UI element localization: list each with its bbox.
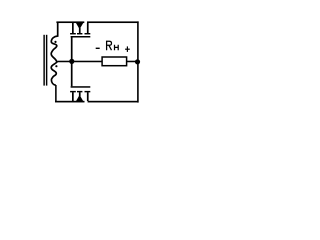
wire: winding bottom lead down to bottom bus — [55, 85, 57, 102]
rectifier element V1 (top): left electrode stem — [72, 23, 74, 33]
rectifier element V1: left electrode foot — [70, 33, 76, 34]
node: plus junction dot — [135, 59, 140, 64]
winding polarity dot upper — [54, 41, 56, 43]
rectifier element V2: right electrode cap — [85, 91, 91, 92]
rectifier element V1: right electrode stem — [87, 23, 89, 33]
wire: V2 plate lead up from long bar to center-tap node — [71, 61, 73, 86]
rectifier element V1: middle stem below triangle — [79, 28, 81, 33]
rectifier element V1: right electrode foot — [85, 33, 91, 34]
wire: resistor right lead — [127, 61, 139, 63]
winding polarity dot lower — [55, 65, 57, 67]
resistor Rn (load) body — [102, 57, 127, 66]
wire: bottom bus left segment — [55, 101, 85, 103]
rectifier element V1: diode triangle (pointing down) — [76, 23, 83, 29]
label Rn letter R — [107, 41, 112, 50]
rectifier element V1: common plate (long bar) — [71, 36, 91, 38]
wire: bottom bus right segment — [88, 101, 139, 103]
rectifier element V2: middle stem above triangle — [79, 92, 81, 96]
wire: V1 plate lead down to center-tap node — [71, 37, 73, 61]
rectifier element V1: middle foot — [77, 33, 82, 34]
label Rn letter n (Cyrillic) — [115, 45, 119, 51]
rectifier element V2: middle cap — [77, 91, 82, 92]
wire: right bus vertical — [137, 21, 139, 102]
rectifier element V2: diode triangle (pointing up) — [76, 95, 83, 101]
wire: top bus left segment (winding top to diode V1 left electrode) — [56, 21, 84, 23]
wire: middle bus (center tap to load) — [57, 61, 102, 63]
label plus sign — [125, 49, 130, 50]
rectifier element V2: left electrode stem — [72, 92, 74, 101]
rectifier element V2: left electrode cap — [70, 91, 76, 92]
rectifier element V2 (bottom): common plate (long bar) — [71, 86, 91, 88]
rectifier element V2: right electrode stem — [87, 92, 89, 101]
label minus sign — [96, 48, 100, 49]
transformer T1 secondary winding (squiggle with center tap) — [51, 22, 58, 85]
transformer T1 core bar left — [43, 35, 44, 86]
node: junction dot at center-tap bus — [69, 59, 74, 64]
wire: top bus right segment (diode V1 right electrode to right corner) — [87, 21, 139, 23]
transformer T1 core bar right — [46, 35, 47, 86]
